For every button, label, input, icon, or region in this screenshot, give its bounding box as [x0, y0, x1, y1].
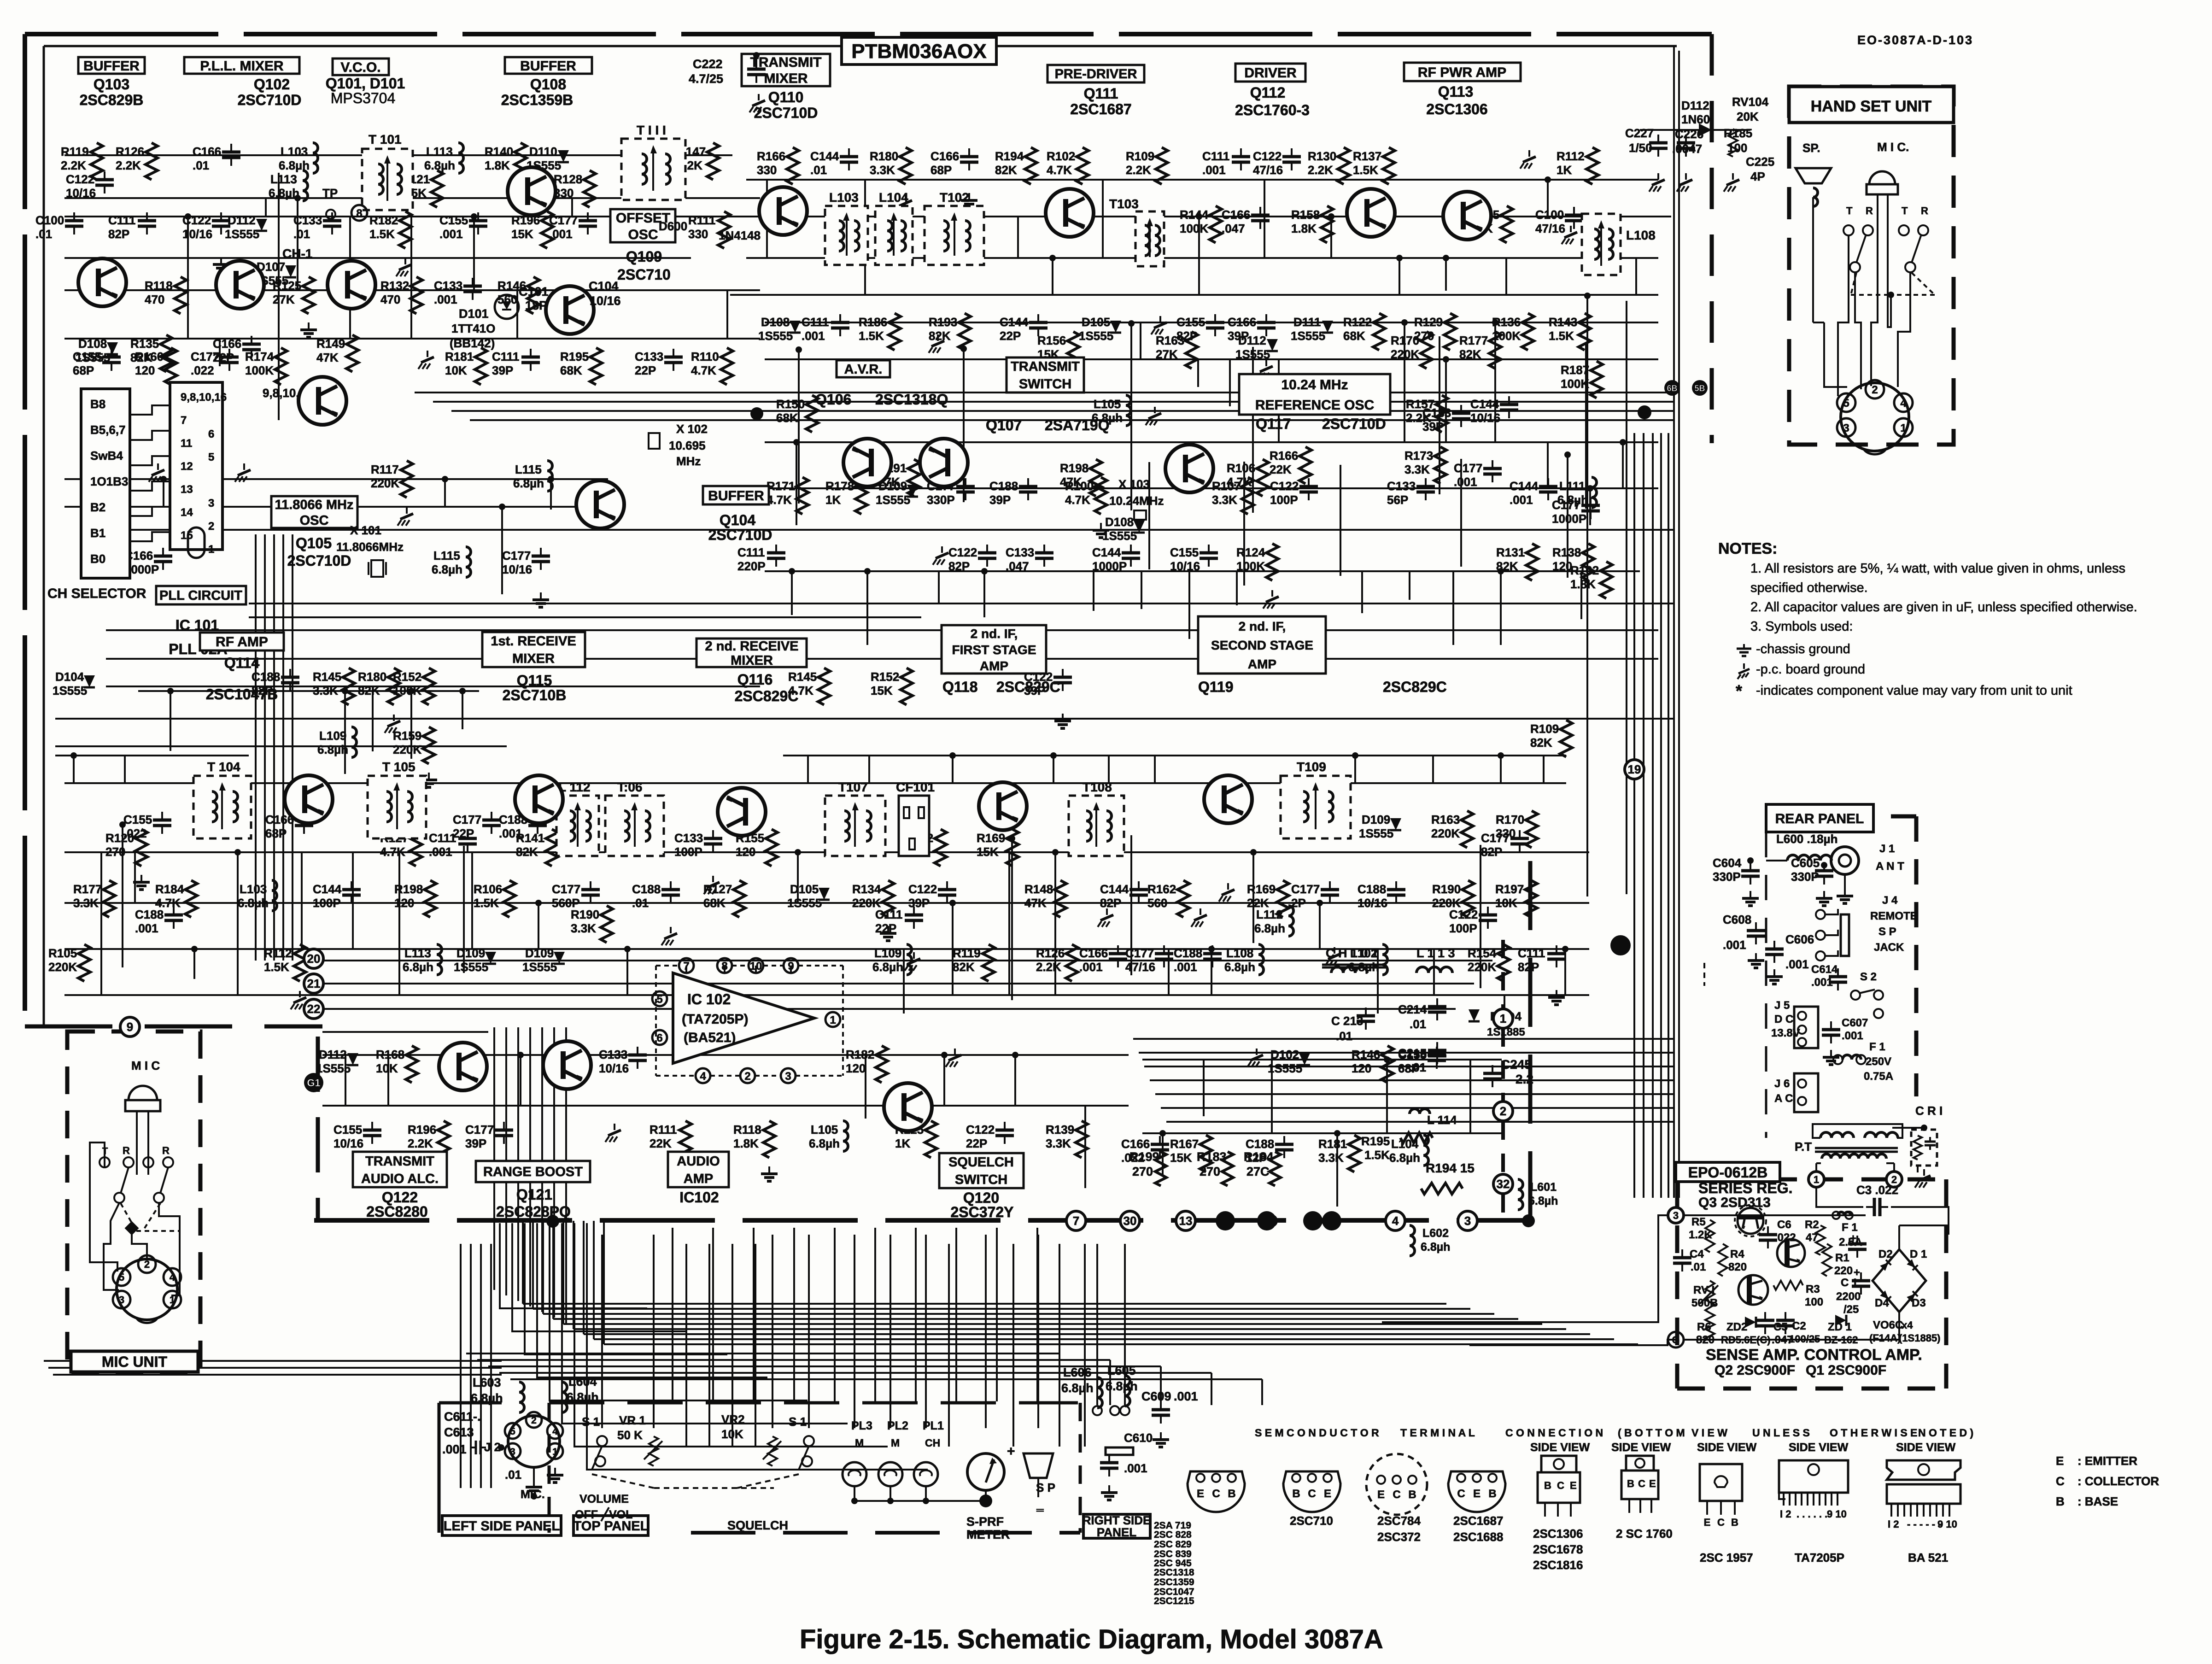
- svg-text:VOL: VOL: [609, 1508, 632, 1521]
- svg-text:T E R M I N A L: T E R M I N A L: [1400, 1427, 1475, 1439]
- svg-text:2SC 829: 2SC 829: [1154, 1539, 1192, 1550]
- svg-text:.001: .001: [1174, 960, 1197, 974]
- svg-text:R1: R1: [1835, 1252, 1849, 1264]
- svg-text:*: *: [1736, 681, 1742, 700]
- svg-text:47/16: 47/16: [1535, 222, 1565, 235]
- svg-text:(1S1885): (1S1885): [1899, 1332, 1941, 1344]
- svg-text:220K: 220K: [1468, 960, 1496, 974]
- svg-text:1K: 1K: [825, 493, 841, 507]
- svg-text:3.3K: 3.3K: [571, 921, 596, 935]
- svg-text:═: ═: [1036, 1504, 1044, 1516]
- svg-text:30: 30: [1124, 1214, 1137, 1228]
- svg-text:3.3K: 3.3K: [1318, 1151, 1344, 1165]
- svg-text:R111: R111: [688, 213, 715, 227]
- svg-text:6.8µh: 6.8µh: [471, 1391, 503, 1405]
- svg-text:68K: 68K: [776, 411, 798, 425]
- svg-text:specified otherwise.: specified otherwise.: [1750, 580, 1868, 595]
- svg-text:R: R: [162, 1145, 170, 1156]
- svg-text:1S555: 1S555: [1102, 529, 1137, 543]
- svg-text:D109: D109: [456, 946, 485, 960]
- svg-text:R156: R156: [1037, 334, 1066, 347]
- svg-text:R194 15: R194 15: [1426, 1161, 1475, 1175]
- svg-text:-p.c. board ground: -p.c. board ground: [1756, 662, 1865, 677]
- svg-text:C133: C133: [674, 831, 703, 845]
- svg-text:4.7K: 4.7K: [691, 363, 716, 377]
- svg-text:10/16: 10/16: [1470, 411, 1500, 425]
- svg-text:M: M: [855, 1437, 864, 1449]
- svg-text:. . . . . .: . . . . . .: [1797, 1508, 1827, 1520]
- svg-text:: EMITTER: : EMITTER: [2077, 1454, 2137, 1468]
- svg-text:R174: R174: [245, 350, 274, 363]
- svg-text:D600: D600: [659, 219, 687, 233]
- svg-text:N O T E D ): N O T E D ): [1918, 1427, 1973, 1439]
- svg-text:68K: 68K: [1343, 329, 1365, 343]
- svg-text:A N T: A N T: [1876, 860, 1904, 873]
- svg-text:22K: 22K: [1247, 896, 1269, 910]
- svg-text:IC 102: IC 102: [687, 991, 731, 1008]
- svg-text:68K: 68K: [703, 896, 726, 910]
- svg-text:V.C.O.: V.C.O.: [340, 60, 380, 75]
- svg-text:Q103: Q103: [94, 76, 129, 93]
- svg-text:2SC829C: 2SC829C: [1383, 679, 1447, 695]
- svg-text:C177: C177: [1552, 498, 1580, 512]
- svg-text:R169: R169: [1247, 882, 1276, 896]
- svg-text:220K: 220K: [1432, 896, 1461, 910]
- svg-text:5: 5: [1843, 397, 1849, 410]
- svg-text:1S555: 1S555: [787, 896, 822, 910]
- svg-text:B: B: [1544, 1480, 1551, 1491]
- svg-text:Q116: Q116: [737, 671, 773, 688]
- svg-text:2SC1816: 2SC1816: [1533, 1558, 1583, 1572]
- svg-text:Q115: Q115: [517, 672, 552, 689]
- svg-text:1: 1: [1900, 422, 1906, 434]
- svg-text:.001: .001: [1454, 475, 1477, 489]
- svg-text:MIXER: MIXER: [731, 653, 773, 668]
- svg-text:82K: 82K: [929, 329, 951, 343]
- svg-text:100P: 100P: [1449, 921, 1477, 935]
- svg-text:SQUELCH: SQUELCH: [948, 1155, 1014, 1170]
- svg-text:C177: C177: [502, 549, 531, 562]
- svg-text:39P: 39P: [908, 896, 930, 910]
- svg-text:2SC829C: 2SC829C: [735, 688, 799, 704]
- svg-text:J 1: J 1: [1879, 843, 1895, 855]
- svg-text:U N L E S S: U N L E S S: [1752, 1427, 1810, 1439]
- svg-text:L108: L108: [1626, 228, 1656, 242]
- svg-text:PTBM036AOX: PTBM036AOX: [851, 40, 986, 63]
- svg-text:C111: C111: [1202, 149, 1229, 163]
- svg-text:G1: G1: [307, 1077, 320, 1089]
- svg-text:2SC 1957: 2SC 1957: [1700, 1551, 1753, 1564]
- svg-text:2: 2: [144, 1259, 150, 1270]
- svg-text:C177: C177: [453, 813, 481, 826]
- svg-text:82P: 82P: [108, 227, 129, 241]
- svg-text:CH SELECTOR: CH SELECTOR: [47, 586, 146, 601]
- svg-text:R106: R106: [1227, 461, 1255, 475]
- svg-text:E: E: [1324, 1488, 1331, 1500]
- svg-text:C133: C133: [635, 350, 663, 363]
- svg-text:2SC1306: 2SC1306: [1426, 101, 1487, 117]
- svg-text:10/16: 10/16: [599, 1061, 629, 1075]
- svg-text:R162: R162: [1147, 882, 1176, 896]
- svg-text:C609: C609: [1141, 1389, 1171, 1403]
- svg-text:6.8µh: 6.8µh: [1528, 1195, 1558, 1207]
- svg-text:1: 1: [1814, 1174, 1819, 1185]
- svg-text:SIDE VIEW: SIDE VIEW: [1697, 1441, 1757, 1454]
- svg-text:C6: C6: [1777, 1219, 1791, 1231]
- svg-text:.022: .022: [123, 826, 147, 840]
- svg-text:SIDE VIEW: SIDE VIEW: [1530, 1441, 1590, 1454]
- svg-text:REAR PANEL: REAR PANEL: [1775, 811, 1864, 826]
- svg-text:6.8µh: 6.8µh: [1389, 1151, 1420, 1165]
- svg-text:BUFFER: BUFFER: [83, 59, 140, 74]
- svg-text:R129: R129: [1414, 315, 1443, 329]
- svg-text:SP.: SP.: [1802, 141, 1820, 155]
- svg-text:.001: .001: [439, 227, 463, 241]
- svg-text:C111: C111: [108, 213, 135, 227]
- svg-text:R198: R198: [1060, 461, 1088, 475]
- svg-text:4.7K: 4.7K: [1047, 163, 1072, 177]
- svg-text:REMOTE: REMOTE: [1870, 910, 1918, 922]
- svg-text:RV104: RV104: [1732, 95, 1769, 109]
- svg-text:.022: .022: [191, 363, 214, 377]
- svg-text:6: 6: [208, 428, 214, 440]
- svg-text:.001: .001: [1785, 957, 1809, 971]
- svg-text:R187: R187: [1561, 363, 1589, 377]
- svg-text:C133: C133: [293, 213, 322, 227]
- svg-text:27C: 27C: [1246, 1165, 1270, 1178]
- svg-text:B: B: [1731, 1517, 1738, 1528]
- svg-text:6.8µh: 6.8µh: [872, 960, 903, 974]
- svg-text:C: C: [2056, 1474, 2065, 1488]
- svg-text:2SC1687: 2SC1687: [1070, 101, 1131, 117]
- svg-text:L602: L602: [1422, 1227, 1449, 1240]
- svg-text:(TA7205P): (TA7205P): [682, 1012, 749, 1027]
- svg-text:D104: D104: [55, 670, 84, 684]
- svg-text:C225: C225: [1746, 155, 1774, 169]
- svg-text:R180: R180: [870, 149, 898, 163]
- svg-text:C100: C100: [1535, 208, 1564, 222]
- svg-text:J 6: J 6: [1774, 1078, 1790, 1090]
- svg-text:S 1: S 1: [789, 1415, 807, 1429]
- svg-text:R118: R118: [733, 1123, 761, 1137]
- svg-text:270: 270: [1132, 1165, 1153, 1178]
- svg-text:L109: L109: [874, 946, 901, 960]
- svg-text:Q106: Q106: [815, 391, 851, 408]
- svg-text:1S555: 1S555: [1359, 826, 1393, 840]
- svg-text:JACK: JACK: [1874, 941, 1904, 954]
- svg-text:R109: R109: [1126, 149, 1154, 163]
- svg-text:C: C: [1393, 1488, 1400, 1501]
- svg-text:120: 120: [135, 363, 155, 377]
- svg-text:T 104: T 104: [207, 760, 240, 774]
- svg-text:SERIES REG.: SERIES REG.: [1698, 1180, 1793, 1196]
- svg-text:1/50: 1/50: [1629, 141, 1652, 155]
- svg-text:6.8µh: 6.8µh: [1348, 960, 1379, 974]
- svg-text:R5: R5: [1691, 1216, 1706, 1228]
- svg-text:L104: L104: [1391, 1137, 1419, 1151]
- svg-text:6.8µh: 6.8µh: [317, 743, 348, 756]
- svg-text:J 5: J 5: [1774, 999, 1790, 1012]
- svg-text:10/16: 10/16: [1358, 896, 1387, 910]
- svg-text:SIDE VIEW: SIDE VIEW: [1896, 1441, 1956, 1454]
- svg-text:C101: C101: [519, 285, 549, 299]
- svg-text:2 nd. IF,: 2 nd. IF,: [971, 627, 1018, 641]
- svg-text:1.8K: 1.8K: [733, 1137, 759, 1150]
- svg-text:SQUELCH: SQUELCH: [727, 1518, 788, 1532]
- svg-text:2: 2: [744, 1070, 750, 1083]
- svg-text:C: C: [1717, 1517, 1725, 1528]
- svg-text:+: +: [1007, 1444, 1015, 1459]
- svg-text:68P: 68P: [930, 163, 952, 177]
- svg-text:47K: 47K: [316, 351, 339, 364]
- svg-text:(BA521): (BA521): [684, 1030, 736, 1045]
- svg-text:TA7205P: TA7205P: [1795, 1551, 1844, 1564]
- svg-text:Q105: Q105: [296, 535, 332, 551]
- svg-text:330: 330: [757, 163, 777, 177]
- svg-text:1N4148: 1N4148: [719, 229, 761, 242]
- svg-text:C104: C104: [589, 279, 619, 293]
- svg-text:C133: C133: [1387, 479, 1416, 493]
- svg-text:2SC829B: 2SC829B: [80, 92, 144, 108]
- svg-text:82K: 82K: [953, 960, 975, 974]
- svg-text:2SC1688: 2SC1688: [1453, 1530, 1503, 1544]
- svg-text:L113: L113: [404, 946, 431, 960]
- svg-text:S E M C O N D U C T O R: S E M C O N D U C T O R: [1255, 1427, 1379, 1439]
- svg-text:39P: 39P: [989, 493, 1011, 507]
- svg-text:.001: .001: [442, 1442, 467, 1456]
- svg-text:x4: x4: [1902, 1319, 1913, 1331]
- svg-text:B1: B1: [90, 526, 105, 540]
- svg-text:82K: 82K: [995, 163, 1017, 177]
- svg-text:C155: C155: [1398, 1048, 1427, 1061]
- svg-text:1: 1: [552, 1447, 558, 1457]
- svg-text:MIXER: MIXER: [512, 651, 555, 666]
- svg-text:14: 14: [181, 506, 193, 519]
- svg-text:D112: D112: [228, 213, 256, 227]
- svg-text:220K: 220K: [48, 960, 77, 974]
- svg-text:LEFT SIDE PANEL: LEFT SIDE PANEL: [444, 1519, 560, 1534]
- svg-text:B5,6,7: B5,6,7: [90, 423, 126, 437]
- svg-text:SECOND STAGE: SECOND STAGE: [1211, 638, 1313, 652]
- svg-text:R102: R102: [1047, 149, 1075, 163]
- svg-text:C188: C188: [1174, 946, 1202, 960]
- svg-text:C144: C144: [1000, 315, 1029, 329]
- svg-text:6.8µh: 6.8µh: [809, 1137, 840, 1150]
- svg-text:100K: 100K: [1180, 222, 1208, 235]
- svg-text:PL2: PL2: [887, 1419, 908, 1432]
- svg-text:: BASE: : BASE: [2077, 1494, 2118, 1508]
- svg-text:15K: 15K: [1170, 1151, 1192, 1165]
- svg-text:5: 5: [510, 1426, 515, 1437]
- svg-text:2SA719Q: 2SA719Q: [1045, 417, 1110, 434]
- svg-text:MIXER: MIXER: [764, 71, 808, 86]
- svg-text:D112: D112: [319, 1048, 347, 1061]
- svg-text:R126: R126: [116, 145, 144, 158]
- svg-text:3.3K: 3.3K: [1046, 1137, 1071, 1150]
- svg-text:T107: T107: [838, 780, 868, 794]
- svg-text:PLL CIRCUIT: PLL CIRCUIT: [159, 588, 242, 603]
- svg-text:C177: C177: [1454, 461, 1482, 475]
- svg-text:R131: R131: [1496, 545, 1525, 559]
- svg-text:.01: .01: [810, 163, 827, 177]
- svg-text:1S555: 1S555: [53, 684, 87, 697]
- svg-text:C166: C166: [1121, 1137, 1150, 1151]
- svg-text:.047: .047: [1006, 559, 1029, 573]
- svg-text:E: E: [2056, 1454, 2064, 1468]
- svg-text:RF PWR AMP: RF PWR AMP: [1418, 65, 1506, 80]
- svg-text:11.8066 MHz: 11.8066 MHz: [275, 498, 354, 512]
- svg-text:C144: C144: [1092, 545, 1121, 559]
- svg-text:L103: L103: [829, 190, 859, 205]
- svg-text:18P: 18P: [525, 299, 547, 312]
- svg-text:6.8µh: 6.8µh: [1254, 921, 1285, 935]
- svg-text:C122: C122: [1270, 479, 1299, 493]
- svg-text:C188: C188: [632, 882, 661, 896]
- svg-text:S 2: S 2: [1860, 971, 1877, 983]
- svg-text:D2: D2: [1878, 1248, 1893, 1260]
- svg-text:NOTES:: NOTES:: [1718, 540, 1777, 557]
- svg-text:Q112: Q112: [1250, 84, 1286, 101]
- svg-text:C122: C122: [908, 882, 937, 896]
- svg-text:3.3K: 3.3K: [1212, 493, 1237, 507]
- svg-text:R182: R182: [369, 213, 398, 227]
- svg-text:2SC710D: 2SC710D: [1322, 416, 1386, 432]
- svg-text:D105: D105: [1082, 315, 1110, 329]
- svg-text:6.8µh: 6.8µh: [513, 476, 544, 490]
- svg-text:.001: .001: [499, 826, 522, 840]
- svg-text:2SC828PQ: 2SC828PQ: [496, 1203, 571, 1220]
- svg-text:RF AMP: RF AMP: [216, 634, 268, 650]
- svg-text:.047: .047: [1222, 222, 1245, 235]
- svg-text:82K: 82K: [1496, 559, 1518, 573]
- svg-text:3: 3: [208, 497, 214, 510]
- svg-text:RD5.6E(C): RD5.6E(C): [1721, 1334, 1771, 1346]
- svg-text:E: E: [1704, 1517, 1711, 1528]
- svg-text:T109: T109: [1297, 760, 1326, 774]
- svg-text:1S555: 1S555: [225, 227, 259, 241]
- svg-text:SIDE VIEW: SIDE VIEW: [1789, 1441, 1849, 1454]
- svg-text:R106: R106: [474, 882, 502, 896]
- svg-text:5: 5: [119, 1271, 124, 1283]
- svg-text:270: 270: [1414, 329, 1434, 343]
- svg-text:120: 120: [846, 1061, 866, 1075]
- svg-text:2SC1760-3: 2SC1760-3: [1235, 102, 1310, 118]
- svg-text:2P: 2P: [1291, 896, 1306, 910]
- svg-text:2.2K: 2.2K: [1036, 960, 1061, 974]
- svg-text:1.5K: 1.5K: [1353, 163, 1378, 177]
- svg-text:39P: 39P: [465, 1137, 486, 1150]
- svg-text:15K: 15K: [871, 684, 893, 697]
- svg-text:C614: C614: [1811, 963, 1838, 976]
- svg-text:1.8K: 1.8K: [485, 158, 510, 172]
- svg-text:1K: 1K: [1557, 163, 1572, 177]
- svg-text:68P: 68P: [73, 363, 94, 377]
- svg-text:R: R: [1866, 205, 1873, 217]
- svg-text:2SC710D: 2SC710D: [238, 92, 302, 108]
- svg-text:Q2 2SC900F: Q2 2SC900F: [1715, 1363, 1795, 1378]
- svg-text:C144: C144: [810, 149, 839, 163]
- svg-text:R185: R185: [1724, 126, 1752, 140]
- svg-text:.001: .001: [1842, 1030, 1863, 1042]
- svg-text:PRE-DRIVER: PRE-DRIVER: [1055, 67, 1137, 82]
- svg-text:56P: 56P: [1387, 493, 1408, 507]
- svg-text:R137: R137: [1353, 149, 1381, 163]
- svg-text:R169: R169: [977, 831, 1005, 845]
- svg-text:8: 8: [356, 207, 362, 220]
- svg-text:82K: 82K: [358, 684, 380, 697]
- svg-text:L115: L115: [515, 463, 542, 476]
- svg-text:R105: R105: [48, 946, 77, 960]
- svg-text:X 103: X 103: [1118, 477, 1150, 491]
- svg-text:22P: 22P: [966, 1137, 987, 1150]
- svg-text:R186: R186: [859, 315, 887, 329]
- svg-text:D 1: D 1: [1910, 1248, 1927, 1260]
- svg-text:R166: R166: [1270, 449, 1298, 463]
- svg-text:.001: .001: [434, 293, 457, 306]
- svg-text:SIDE VIEW: SIDE VIEW: [1611, 1441, 1671, 1454]
- svg-text:IC 101: IC 101: [176, 617, 219, 633]
- svg-text:CH-1: CH-1: [282, 246, 312, 261]
- svg-text:2SC1318: 2SC1318: [1154, 1567, 1194, 1578]
- svg-text:D108: D108: [761, 315, 790, 329]
- svg-text:12P: 12P: [1246, 1151, 1267, 1165]
- svg-text:-indicates component value may: -indicates component value may vary from…: [1756, 683, 2072, 698]
- svg-text:D C: D C: [1774, 1013, 1793, 1025]
- svg-text:TRANSMIT: TRANSMIT: [1011, 359, 1080, 374]
- svg-text:82P: 82P: [1100, 896, 1121, 910]
- svg-text:.01: .01: [1336, 1029, 1352, 1043]
- svg-text:11: 11: [181, 437, 192, 450]
- svg-text:10/16: 10/16: [590, 294, 621, 308]
- svg-text:2SC1359: 2SC1359: [1154, 1577, 1194, 1588]
- svg-text:R184: R184: [155, 882, 184, 896]
- svg-text:C155: C155: [334, 1123, 362, 1137]
- svg-text:Q111: Q111: [1084, 85, 1118, 102]
- svg-text:68P: 68P: [265, 826, 287, 840]
- svg-text:R177: R177: [73, 882, 102, 896]
- svg-text:100: 100: [1805, 1296, 1823, 1308]
- svg-text:( B O T T O M: ( B O T T O M: [1618, 1427, 1685, 1439]
- svg-text:2: 2: [1872, 384, 1878, 396]
- svg-text:47/16: 47/16: [1253, 163, 1283, 177]
- svg-text:L600 .18µh: L600 .18µh: [1776, 832, 1838, 846]
- svg-text:E: E: [1649, 1478, 1656, 1489]
- svg-text:2SC1359B: 2SC1359B: [501, 92, 573, 108]
- svg-text:R112: R112: [264, 946, 292, 960]
- svg-text:3: 3: [1464, 1214, 1471, 1228]
- svg-text:2SC710: 2SC710: [617, 266, 671, 283]
- svg-text:C144: C144: [1470, 397, 1499, 411]
- svg-text:C155: C155: [1176, 315, 1205, 329]
- svg-text:100K: 100K: [245, 363, 274, 377]
- svg-text:L103: L103: [240, 882, 267, 896]
- svg-text:68K: 68K: [560, 363, 582, 377]
- svg-text:4: 4: [700, 1070, 706, 1083]
- svg-text:.01: .01: [1691, 1261, 1706, 1273]
- svg-text:R195: R195: [1361, 1134, 1390, 1148]
- svg-text:2SC710D: 2SC710D: [708, 527, 772, 543]
- svg-text:21: 21: [307, 977, 321, 990]
- svg-text:R158: R158: [1291, 208, 1320, 222]
- svg-text:E: E: [1473, 1488, 1481, 1500]
- svg-text:C227: C227: [1625, 126, 1654, 140]
- svg-text:R2: R2: [1805, 1219, 1819, 1231]
- svg-text:T 105: T 105: [382, 760, 415, 774]
- svg-text:C605: C605: [1791, 856, 1820, 870]
- svg-text:2SC710: 2SC710: [1290, 1514, 1333, 1528]
- svg-text:5: 5: [656, 993, 662, 1006]
- svg-text:2SC710B: 2SC710B: [503, 687, 567, 703]
